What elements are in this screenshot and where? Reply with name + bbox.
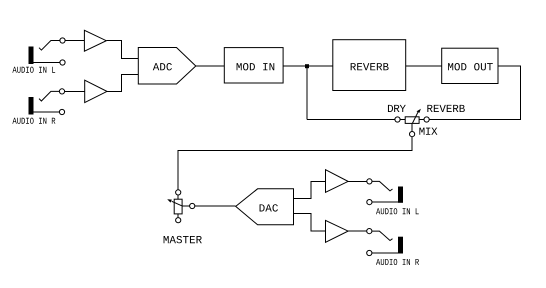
- DAC converter: [236, 189, 294, 225]
- wire jack R to amp: [65, 90, 85, 92]
- wire master pot to DAC: [195, 205, 236, 207]
- label ADC: [153, 63, 172, 70]
- label AUDIO IN L (output): [376, 208, 419, 214]
- label AUDIO IN R (output): [376, 259, 419, 265]
- wire REVERB to MOD OUT: [406, 65, 442, 67]
- potentiometer MIX: [395, 109, 429, 137]
- op-amp U3 (output buffer L): [326, 170, 349, 193]
- wire MOD IN to REVERB: [283, 65, 333, 67]
- ADC converter: [138, 48, 196, 85]
- label DAC: [260, 204, 278, 211]
- wire ADC to MOD IN: [196, 65, 225, 67]
- wire amp L to ADC pin1: [106, 41, 138, 59]
- wire DAC pin2 to amp R: [294, 214, 326, 232]
- wire mix pot wiper to master pot: [178, 137, 412, 190]
- block REVERB: [333, 40, 406, 91]
- label MASTER: [164, 236, 202, 243]
- potentiometer MASTER: [167, 190, 195, 223]
- block MOD OUT: [442, 48, 498, 83]
- wire amp to jack R: [348, 230, 366, 232]
- block MOD IN: [224, 48, 283, 83]
- node junction (dry tap): [305, 64, 309, 68]
- jack J2 (audio input R): [29, 89, 65, 115]
- label DRY: [388, 105, 406, 112]
- wire MOD OUT to mix pot (reverb side): [429, 66, 520, 120]
- label MIX: [419, 128, 437, 135]
- op-amp U1 (input buffer L): [84, 30, 106, 51]
- label AUDIO IN R (input): [12, 118, 55, 124]
- jack J4 (audio output R): [367, 229, 403, 256]
- wire amp R to ADC pin2: [107, 75, 138, 92]
- op-amp U4 (output buffer R): [326, 220, 349, 242]
- label MOD OUT: [448, 63, 493, 70]
- label REVERB (mix): [427, 105, 464, 112]
- label REVERB: [351, 63, 389, 70]
- jack J1 (audio input L): [29, 38, 66, 65]
- wire DAC pin1 to amp L: [294, 181, 326, 198]
- jack J3 (audio output L): [367, 179, 403, 205]
- label AUDIO IN L (input): [12, 67, 55, 73]
- op-amp U2 (input buffer R): [85, 80, 107, 102]
- wire dry line to mix pot: [307, 119, 395, 121]
- wire amp to jack L: [348, 180, 367, 182]
- wire junction down to dry line: [306, 68, 308, 120]
- label MOD IN: [237, 63, 275, 70]
- wire jack L to amp: [65, 40, 84, 42]
